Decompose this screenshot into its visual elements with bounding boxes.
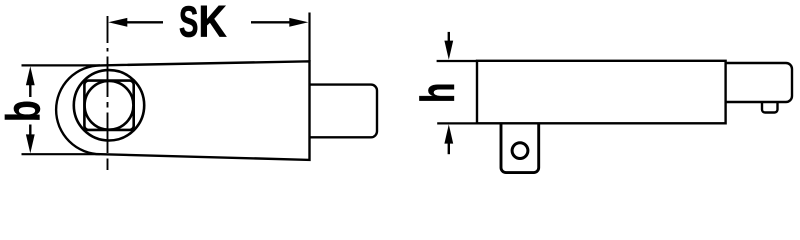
left view: square-drive boss circle <box>74 70 144 140</box>
left view: inner bore circle <box>85 81 134 130</box>
right view: tang hole circle <box>512 143 528 159</box>
left view: drive square <box>84 81 133 130</box>
dimension h: upper arrowhead (pointing down) <box>444 41 453 60</box>
dimension b: dimension line upper segment <box>29 84 31 97</box>
dimension SK: right arrowhead <box>289 18 308 27</box>
right view: right extension piece <box>726 63 792 102</box>
dimension b: bottom arrowhead <box>26 134 35 153</box>
dimension h: top extension line <box>437 60 477 62</box>
left view: tool body outline <box>56 61 309 160</box>
dimension b: dimension line lower segment <box>29 125 31 137</box>
dimension h: bottom extension line <box>437 122 477 124</box>
dimension h: upper arrow tail <box>448 32 450 42</box>
dimension SK: dimension line left segment <box>127 21 164 23</box>
dimension h: lower arrow tail <box>448 143 450 155</box>
svg-text:b: b <box>0 100 50 122</box>
svg-text:K: K <box>199 0 227 46</box>
dimension SK: dimension line right segment <box>251 21 290 23</box>
dimension h: lower arrowhead (pointing up) <box>444 124 453 143</box>
right view: main body rectangle <box>477 61 726 124</box>
svg-text:S: S <box>179 0 198 46</box>
left view: rectangular shank <box>311 85 378 138</box>
dimension b: top arrowhead <box>26 66 35 85</box>
dimension SK: left arrowhead <box>108 18 127 27</box>
right view: small lug below extension <box>762 102 778 113</box>
dimension b: top extension line <box>22 64 101 66</box>
svg-text:h: h <box>411 83 464 103</box>
left view: vertical centerline through head (dash-dot) <box>107 16 109 170</box>
right view: square tang below body <box>501 123 539 172</box>
dimension SK: right extension line (body edge extended up) <box>308 13 310 62</box>
dimension b: bottom extension line <box>22 153 101 155</box>
